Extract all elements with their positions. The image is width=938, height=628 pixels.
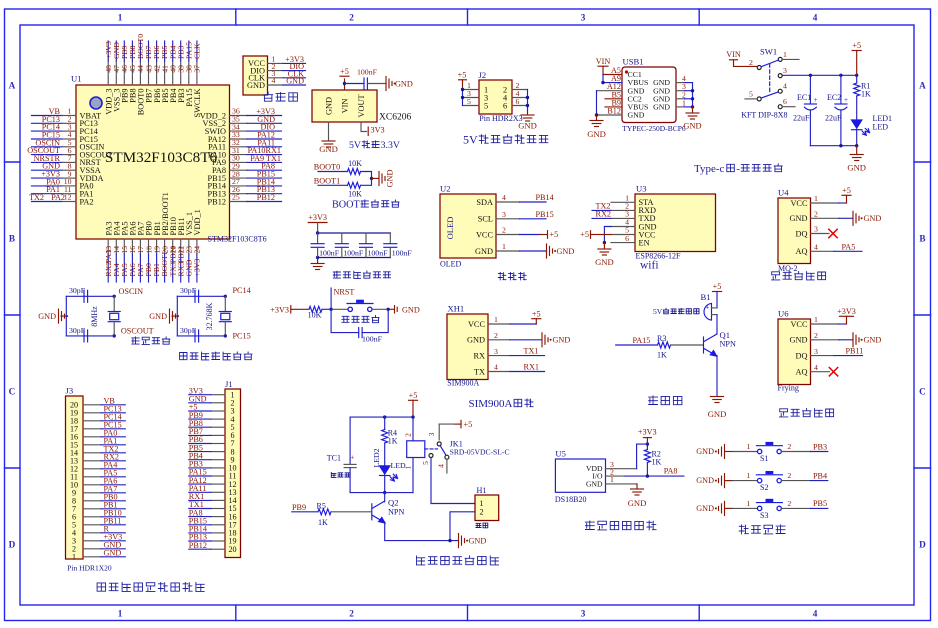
power +5 above R1: [852, 41, 861, 75]
svg-text:MQ-2: MQ-2: [778, 264, 798, 273]
svg-text:PC15: PC15: [233, 332, 251, 341]
U2 pin wires and numbers: [496, 193, 520, 251]
USB1 right pin wires and numbers: [676, 74, 693, 107]
label: MCU pin breakout title: [97, 583, 204, 592]
power +5 relay contact: [439, 420, 472, 429]
wire button to gnd junction: [372, 308, 388, 310]
svg-text:3V3: 3V3: [371, 125, 385, 134]
label: temperature module title: [585, 521, 656, 530]
svg-text:VIN: VIN: [341, 99, 350, 114]
svg-text:TX1: TX1: [524, 347, 539, 356]
label: flame sensor title: [780, 408, 834, 417]
svg-text:D: D: [9, 540, 16, 550]
wire crystal1 bottom: [66, 335, 114, 337]
wire crystal2 bottom: [177, 335, 225, 337]
capacitor EC2 22uF electrolytic: [825, 75, 848, 145]
ground crystal1: [38, 309, 68, 323]
node relay bottom junction: [383, 491, 386, 494]
label: 5V external backup power title: [463, 133, 548, 147]
svg-text:1K: 1K: [861, 90, 871, 99]
wire SW1 pin5: [745, 98, 757, 100]
svg-text:5V: 5V: [653, 307, 663, 316]
svg-text:20: 20: [228, 545, 236, 554]
wire S1 left: [733, 442, 758, 452]
svg-text:D: D: [919, 540, 926, 550]
svg-text:LED2: LED2: [372, 448, 381, 467]
svg-text:VCC: VCC: [468, 320, 486, 329]
wire relay top rail: [350, 416, 413, 418]
ground at S2: [696, 474, 732, 488]
svg-text:PA8: PA8: [664, 466, 678, 475]
svg-text:DQ: DQ: [796, 351, 808, 360]
svg-text:2: 2: [494, 331, 498, 340]
svg-text:PB4: PB4: [813, 471, 827, 480]
pushbutton S2: [756, 471, 782, 492]
wire Q1 emitter to ground: [716, 356, 718, 397]
wire filter bottom rail: [318, 257, 391, 259]
svg-text:LED: LED: [873, 123, 889, 132]
svg-text:J3: J3: [66, 386, 74, 396]
label: H1 port: [476, 523, 488, 528]
ground U3: [595, 243, 614, 267]
svg-text:1: 1: [118, 609, 123, 619]
power +5 relay: [409, 391, 418, 417]
power +3V3 at U5: [638, 428, 657, 445]
module U6 flame sensor body: [778, 309, 811, 393]
wire U6 DQ to PB11: [811, 347, 864, 356]
wire XH1 TX to RX1: [510, 363, 545, 372]
svg-text:DQ: DQ: [796, 229, 808, 238]
svg-text:10K: 10K: [308, 311, 322, 320]
crystal Y1 8MHz: [90, 296, 120, 336]
wire junction to ground: [372, 177, 380, 179]
svg-text:4: 4: [502, 193, 506, 202]
svg-text:Q2: Q2: [388, 498, 399, 508]
svg-text:+5: +5: [458, 70, 467, 79]
wire U5 I/O to PA8: [606, 466, 685, 476]
net label BOOT1 wire: [314, 176, 348, 185]
connector USB1 TYPEC body: [622, 57, 686, 134]
svg-text:GND: GND: [595, 257, 614, 267]
wire J2 right bus: [527, 90, 529, 113]
svg-text:PA2: PA2: [51, 193, 65, 202]
wire U5 VDD bend: [606, 444, 648, 469]
svg-text:GND: GND: [395, 79, 413, 88]
svg-text:3.3V: 3.3V: [381, 140, 400, 151]
svg-text:J2: J2: [479, 70, 487, 80]
svg-text:32.768K: 32.768K: [205, 302, 214, 330]
svg-text:GND: GND: [469, 536, 487, 545]
capacitor C1 100nF filter: [311, 233, 340, 258]
wire XH1 RX to TX1: [510, 347, 545, 356]
svg-text:3: 3: [427, 432, 436, 436]
svg-text:100nF: 100nF: [368, 249, 389, 258]
svg-text:GND: GND: [467, 336, 485, 345]
svg-text:BOOT0: BOOT0: [314, 163, 340, 172]
wire crystal1 left rail: [65, 296, 67, 336]
svg-text:4: 4: [272, 76, 276, 85]
U1 left pins 1-12 wires: [32, 116, 77, 202]
svg-text:CLK: CLK: [193, 43, 202, 59]
svg-text:PB11: PB11: [846, 347, 864, 356]
op-amp U1 microcontroller STM32F103C8T6 body: [71, 74, 267, 244]
svg-text:1: 1: [814, 315, 818, 324]
wire crystal2 top: [177, 295, 225, 297]
svg-text:3: 3: [783, 66, 787, 75]
svg-text:Pin HDR1X20: Pin HDR1X20: [67, 564, 112, 573]
resistor 10K lower BOOT: [348, 182, 363, 198]
svg-text:GND: GND: [386, 170, 395, 188]
svg-text:1: 1: [747, 442, 751, 451]
ground at XH1 GND: [510, 333, 570, 347]
svg-text:PA2: PA2: [80, 197, 94, 206]
node OSCIN: [113, 287, 144, 298]
svg-text:3: 3: [814, 225, 818, 234]
U1 bottom pin numbers and net labels: [104, 192, 202, 276]
node VIN junction: [343, 82, 346, 85]
svg-text:VOUT: VOUT: [357, 94, 366, 117]
svg-text:6: 6: [516, 97, 520, 106]
ground relay: [459, 534, 487, 548]
svg-text:+: +: [351, 454, 355, 462]
wire U4 AQ to PA5: [811, 242, 863, 251]
wire U3 RXD to TX2: [592, 202, 611, 211]
svg-text:PB14: PB14: [536, 193, 554, 202]
svg-text:PB5: PB5: [813, 499, 827, 508]
J2 left pins wires: [463, 81, 480, 106]
power +5 above XC6206: [340, 67, 349, 90]
svg-text:VIN: VIN: [726, 50, 741, 59]
svg-text:2: 2: [749, 58, 753, 67]
net label BOOT0 wire: [314, 163, 348, 172]
J3 net labels: [104, 397, 123, 558]
wire S3 to PB5: [782, 499, 828, 509]
svg-text:5V: 5V: [349, 140, 361, 151]
svg-text:PA5: PA5: [842, 242, 856, 251]
wire VIN to cap: [345, 83, 365, 85]
svg-text:PB12: PB12: [208, 197, 226, 206]
ground J2: [518, 112, 537, 131]
svg-text:30pF: 30pF: [69, 286, 86, 295]
svg-text:RX: RX: [473, 351, 485, 360]
svg-text:GND: GND: [475, 247, 493, 256]
svg-text:U2: U2: [440, 184, 451, 194]
buzzer B1: [701, 292, 718, 320]
label: 5V step-down 3.3V title: [349, 140, 400, 151]
node PC14: [224, 286, 251, 298]
svg-text:2: 2: [502, 226, 506, 235]
wire J2 left bus: [462, 90, 464, 106]
svg-text:NPN: NPN: [720, 340, 736, 349]
node reset right junction: [387, 308, 390, 311]
svg-text:PB12: PB12: [257, 193, 275, 202]
wire Q2 emitter to ground rail: [385, 522, 458, 541]
J3 pin wires: [83, 405, 125, 557]
svg-text:B: B: [9, 234, 15, 244]
ground U5: [628, 489, 647, 508]
svg-text:+5: +5: [409, 391, 418, 400]
svg-text:+5: +5: [464, 420, 473, 429]
wire +5 rail from SW1 pin3: [782, 74, 856, 76]
module XH1 SIM900A body: [447, 304, 488, 388]
svg-text:EC1: EC1: [797, 93, 811, 102]
svg-text:KFT DIP-8X8: KFT DIP-8X8: [741, 110, 787, 119]
label: relay control output title: [417, 556, 499, 565]
capacitor 100nF reset: [359, 328, 383, 344]
svg-text:+5: +5: [852, 41, 861, 50]
wire U2 SCL to PB15: [520, 210, 554, 219]
svg-text:GND: GND: [325, 97, 334, 115]
node USB1 right junctions: [691, 89, 694, 92]
capacitor TC1 tantalum: [327, 417, 356, 493]
svg-text:1: 1: [783, 50, 787, 59]
wire relay pin5 to H1: [431, 458, 475, 504]
svg-text:VCC: VCC: [476, 230, 494, 239]
J1 net labels: [189, 386, 207, 550]
wire S2 left: [733, 471, 758, 481]
svg-text:SCL: SCL: [478, 215, 493, 224]
svg-text:2: 2: [814, 210, 818, 219]
svg-text:GND: GND: [847, 163, 866, 173]
svg-text:A: A: [919, 81, 926, 91]
node J2 right junctions: [526, 96, 529, 99]
capacitor C3 100nF filter: [360, 233, 389, 258]
U1 top pins 37-48 wires: [108, 41, 197, 85]
ground USB1 left: [587, 115, 606, 139]
svg-text:XH1: XH1: [448, 304, 465, 314]
connector download port (SWD) body: [243, 56, 268, 95]
wire crystal1 top: [66, 295, 114, 297]
svg-text:GND: GND: [653, 103, 670, 112]
ground reset: [388, 305, 420, 314]
pushbutton reset: [348, 307, 352, 311]
svg-text:+3V3: +3V3: [638, 428, 657, 437]
svg-text:C: C: [9, 387, 16, 397]
node NRST junction: [329, 308, 332, 311]
label: reset circuit title: [342, 316, 379, 323]
svg-text:PA15: PA15: [633, 336, 651, 345]
download port pins 1-4 wires and labels: [268, 55, 306, 86]
svg-text:4: 4: [783, 82, 787, 91]
diode LED1: [852, 114, 893, 146]
svg-text:1: 1: [502, 242, 506, 251]
ground buzzer: [708, 397, 727, 420]
svg-text:TX2: TX2: [29, 193, 44, 202]
svg-text:SIM900A: SIM900A: [469, 398, 513, 410]
svg-text:5: 5: [421, 461, 430, 465]
label: BOOT set circuit title: [332, 200, 399, 211]
svg-text:PB15: PB15: [536, 210, 554, 219]
power +5 at J2: [458, 70, 467, 89]
svg-text:5: 5: [749, 89, 753, 98]
svg-text:+5: +5: [580, 230, 589, 239]
svg-text:4: 4: [436, 464, 445, 468]
J1 pin wires: [189, 395, 225, 550]
capacitor 30pF bottom crystal1: [69, 326, 88, 342]
power +3V3 reset: [270, 305, 309, 314]
node J2 left junctions: [461, 88, 464, 91]
svg-text:Q1: Q1: [720, 330, 731, 340]
module U3 ESP8266-12F body: [635, 184, 716, 261]
power VIN at SW1: [726, 50, 757, 66]
relay JK1 contacts: [421, 424, 449, 473]
svg-text:6: 6: [625, 234, 629, 243]
node OSCOUT: [113, 327, 154, 338]
svg-text:GND: GND: [790, 214, 808, 223]
svg-text:1: 1: [118, 13, 123, 23]
capacitor EC1 22uF electrolytic: [793, 75, 818, 145]
U6 AQ no-connect: [811, 368, 838, 376]
ground at U4 GND: [811, 211, 882, 225]
svg-text:VCC: VCC: [790, 320, 808, 329]
label: SIM900A module title: [469, 398, 534, 410]
U4 pin numbers: [814, 194, 818, 251]
wire PA15 to R3: [616, 336, 658, 345]
svg-text:+5: +5: [340, 67, 349, 76]
svg-text:6: 6: [503, 101, 507, 110]
svg-text:3: 3: [581, 13, 586, 23]
power +3V3 at U6 VCC: [811, 307, 856, 324]
svg-text:S1: S1: [760, 454, 768, 463]
ground crystal2: [149, 309, 179, 323]
label: display title: [498, 273, 526, 280]
svg-text:A: A: [9, 81, 16, 91]
svg-text:RX1: RX1: [524, 363, 539, 372]
U6 pin numbers: [814, 315, 818, 372]
label: buzzer title: [649, 396, 682, 405]
svg-text:GND: GND: [696, 504, 714, 513]
svg-text:GND: GND: [38, 312, 56, 321]
svg-text:4: 4: [814, 363, 818, 372]
node +3V3 junction: [646, 442, 649, 445]
svg-text:2: 2: [404, 433, 413, 437]
svg-text:SDA: SDA: [476, 198, 493, 207]
svg-text:C: C: [919, 387, 926, 397]
connector J1 Pin HDR1X20 body: [225, 379, 241, 558]
svg-text:GND: GND: [628, 498, 647, 508]
svg-text:VCC: VCC: [790, 199, 808, 208]
svg-text:GND: GND: [104, 549, 122, 558]
svg-text:+5: +5: [713, 282, 722, 291]
node BOOT junction: [370, 177, 373, 180]
wire NRST to button: [331, 308, 350, 310]
resistor R2 1K: [644, 444, 661, 476]
connector J2 Pin HDR2X3 body: [479, 70, 513, 114]
power +5 at U4 VCC: [811, 186, 852, 203]
svg-text:Frying: Frying: [778, 384, 799, 393]
svg-text:VDD_1: VDD_1: [193, 209, 202, 235]
J2 right pins wires: [512, 81, 528, 106]
svg-text:S2: S2: [760, 483, 768, 492]
svg-text:GND: GND: [149, 312, 167, 321]
ground under XC6206 GND pin: [319, 122, 338, 154]
transistor Q1 NPN: [704, 330, 736, 356]
svg-text:2: 2: [787, 471, 791, 480]
svg-text:4: 4: [494, 363, 498, 372]
svg-text:100nF: 100nF: [357, 68, 378, 77]
regulator U XC6206 body: [312, 90, 411, 123]
wire SW1 pin1: [782, 58, 799, 60]
svg-text:30pF: 30pF: [180, 326, 197, 335]
svg-text:+: +: [844, 95, 848, 104]
svg-text:5: 5: [467, 97, 471, 106]
XH1 pin wires and numbers: [488, 315, 510, 372]
pushbutton S3: [756, 499, 782, 520]
svg-text:-: -: [736, 163, 740, 175]
svg-text:J1: J1: [225, 379, 233, 389]
svg-text:37: 37: [193, 65, 202, 73]
node USB1 left junctions: [601, 81, 604, 84]
svg-text:5V: 5V: [463, 133, 478, 147]
svg-text:2: 2: [787, 442, 791, 451]
U1 right pin numbers and net labels: [200, 107, 281, 207]
wire cap to ground: [367, 83, 386, 85]
svg-text:U6: U6: [778, 309, 789, 319]
svg-text:RX2: RX2: [596, 210, 611, 219]
wire BOOT1 to junction: [361, 178, 372, 185]
svg-text:GND: GND: [696, 476, 714, 485]
label: JK1 SRD-05VDC-SL-C: [450, 440, 510, 457]
switch SW1 dashed link: [769, 64, 771, 92]
ground at S3: [696, 501, 732, 515]
svg-text:GND: GND: [628, 111, 645, 120]
label: tantalum cap: [331, 472, 350, 477]
svg-text:SW1: SW1: [760, 47, 777, 57]
module U5 DS18B20 body: [555, 449, 606, 505]
svg-text:100nF: 100nF: [362, 335, 383, 344]
svg-text:+3V3: +3V3: [193, 259, 202, 277]
svg-text:6: 6: [783, 97, 787, 106]
power VIN at USB1: [596, 57, 611, 75]
capacitor 100nF at XC6206: [357, 68, 378, 90]
svg-text:1: 1: [404, 465, 413, 469]
svg-text:OSCIN: OSCIN: [119, 287, 144, 296]
wire U3 GND bend: [604, 227, 611, 243]
svg-text:STM32F103C8T6: STM32F103C8T6: [208, 235, 267, 244]
svg-text:100nF: 100nF: [319, 249, 340, 258]
U1 bottom pins 13-24 wires: [108, 239, 197, 282]
wire PB9 to R5: [292, 503, 318, 512]
svg-text:4: 4: [813, 13, 818, 23]
node ground rail junction: [448, 539, 451, 542]
label: smoke sensor title: [772, 271, 826, 280]
svg-text:OLED: OLED: [445, 217, 455, 240]
svg-text:GND: GND: [864, 214, 882, 223]
connector H1 body: [475, 486, 499, 521]
svg-text:1K: 1K: [388, 437, 398, 446]
capacitor 30pF top crystal1: [69, 286, 88, 302]
svg-text:3: 3: [814, 347, 818, 356]
svg-text:2: 2: [480, 508, 484, 517]
pushbutton S1: [756, 442, 782, 463]
wire relay bottom rail: [350, 492, 413, 494]
USB1 left pin wires A5 A9 A12 B5 B9 B12: [597, 75, 623, 116]
wire S3 left: [733, 499, 758, 509]
svg-text:2: 2: [349, 13, 354, 23]
svg-text:U1: U1: [71, 74, 82, 84]
USB1 left pin designators: [607, 66, 621, 116]
label: crystal circuit title: [132, 337, 170, 345]
svg-text:GND: GND: [557, 247, 575, 256]
connector J3 Pin HDR1X20 body: [66, 386, 84, 562]
resistor R3 1K: [657, 334, 703, 360]
svg-text:GND: GND: [708, 409, 727, 419]
svg-text:GND: GND: [790, 336, 808, 345]
wire S2 to PB4: [782, 471, 828, 481]
svg-text:5: 5: [484, 101, 488, 110]
ground at U6 GND: [811, 333, 882, 347]
svg-text:EC2: EC2: [827, 93, 841, 102]
